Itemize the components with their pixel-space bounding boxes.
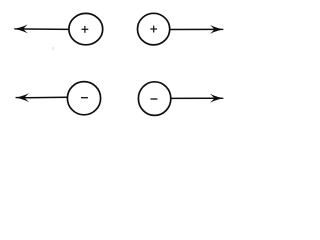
- positive charge circle TL: [69, 13, 103, 44]
- wire arrow left from BL: [15, 93, 67, 102]
- negative charge circle BL: [67, 82, 100, 115]
- negative charge circle BR: [138, 82, 170, 116]
- plus sign TL: [82, 26, 89, 33]
- positive charge circle TR: [138, 13, 170, 45]
- wire arrow right from TR: [170, 25, 224, 34]
- wire arrow right from BR: [171, 94, 224, 103]
- minus sign BL: [81, 97, 88, 99]
- plus sign TR: [150, 26, 157, 33]
- minus sign BR: [151, 98, 158, 100]
- wire arrow left from TL: [14, 24, 69, 33]
